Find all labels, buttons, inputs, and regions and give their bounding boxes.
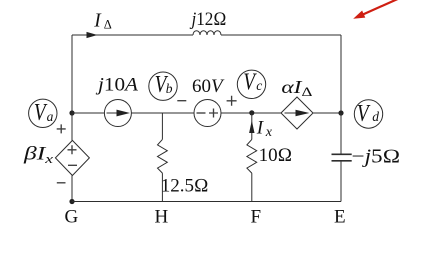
wire right rail to capacitor — [340, 113, 342, 154]
beta Ix external minus — [57, 182, 66, 184]
node label circle Vd — [354, 100, 382, 128]
node label circle Vb — [149, 72, 177, 100]
node dot at Vd junction — [338, 110, 343, 115]
wire right rail upper — [340, 35, 342, 113]
capacitor -j5 ohm plates — [332, 154, 352, 161]
svg-text:H: H — [155, 207, 169, 228]
wire middle: dependent source to right rail — [313, 112, 341, 114]
current arrow Ix — [249, 121, 254, 134]
wire middle: 60V source to dependent source — [221, 112, 281, 114]
beta Ix internal minus — [68, 164, 77, 166]
svg-text:c: c — [256, 78, 262, 93]
red annotation arrow — [352, 0, 428, 22]
dependent source beta Ix external plus — [57, 124, 66, 133]
current source arrow — [107, 112, 118, 114]
svg-text:j12Ω: j12Ω — [189, 9, 227, 30]
wire bottom rail — [72, 201, 341, 203]
wire H branch upper — [161, 113, 163, 139]
wire left rail to diamond — [71, 113, 73, 140]
svg-text:G: G — [65, 207, 79, 228]
60V external minus — [177, 100, 186, 102]
60V internal plus — [209, 109, 218, 118]
dependent source alpha I-delta diamond — [281, 97, 313, 129]
svg-text:F: F — [251, 207, 262, 228]
wire F branch lower — [251, 173, 253, 201]
svg-text:a: a — [47, 109, 54, 124]
beta Ix internal plus — [68, 145, 77, 154]
node label circle Vc — [237, 70, 265, 98]
wire H branch lower — [161, 173, 163, 201]
60V external plus — [227, 96, 237, 106]
node dot at G — [69, 199, 74, 204]
wire middle: current source to 60V source — [131, 112, 194, 114]
svg-text:x: x — [265, 125, 273, 140]
voltage source 60V circle — [194, 100, 221, 127]
current arrow I-delta on top wire — [87, 32, 98, 38]
node dot at F branch junction — [249, 110, 254, 115]
svg-text:60V: 60V — [192, 76, 225, 97]
wire left rail upper — [71, 35, 73, 113]
wire top-right segment — [221, 34, 341, 36]
wire middle: node A to current source — [72, 112, 104, 114]
wire top-left segment — [72, 34, 193, 36]
wire diamond to bottom rail — [71, 176, 73, 202]
svg-text:Δ: Δ — [104, 18, 112, 32]
node label circle Va — [29, 99, 57, 127]
svg-text:E: E — [334, 207, 346, 228]
svg-text:j10A: j10A — [95, 75, 139, 96]
svg-text:12.5Ω: 12.5Ω — [161, 175, 209, 196]
svg-text:10Ω: 10Ω — [259, 145, 293, 166]
svg-text:−j5Ω: −j5Ω — [352, 146, 401, 167]
wire F branch upper — [251, 113, 253, 139]
svg-text:d: d — [372, 109, 379, 124]
node dot at Va junction — [69, 110, 74, 115]
inductor j12 ohm coil — [193, 31, 221, 35]
svg-text:b: b — [166, 81, 173, 96]
current source j10A circle — [104, 100, 131, 127]
wire capacitor to bottom rail — [340, 161, 342, 202]
resistor 12.5 ohm zigzag — [158, 139, 168, 173]
dependent source arrow — [285, 112, 297, 114]
resistor 10 ohm zigzag — [247, 139, 257, 173]
60V internal minus — [197, 112, 206, 114]
dependent source beta Ix diamond — [55, 140, 89, 175]
